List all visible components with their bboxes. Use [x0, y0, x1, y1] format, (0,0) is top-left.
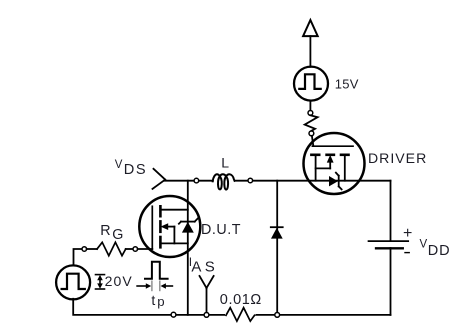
body arrow (points left to channel) [161, 223, 169, 230]
diode D1 (points up) [271, 227, 283, 238]
svg-text:V: V [115, 159, 123, 171]
wire node to DUT gate [138, 248, 153, 250]
node (terminal) above gate zigzag [308, 111, 313, 116]
channel segment (body) [327, 154, 334, 157]
battery VDD [369, 241, 409, 248]
wire 15V source to node [309, 101, 311, 111]
body-source connector [173, 227, 175, 244]
drain lead [160, 209, 187, 211]
node (terminal) right of RG [133, 247, 138, 252]
gate bar [312, 145, 353, 147]
channel segment (source side) [159, 237, 162, 247]
wire bottom rail [73, 299, 390, 315]
gate bar [151, 206, 153, 249]
node (terminal) IAS probe [204, 313, 209, 318]
node (terminal) left of RG [82, 247, 87, 252]
source lead [160, 242, 187, 244]
body diode (on wire, points up) [182, 222, 194, 233]
drain lead [344, 155, 346, 181]
svg-text:DS: DS [124, 162, 147, 178]
resistor RG [97, 242, 126, 255]
svg-text:AS: AS [191, 259, 218, 276]
svg-text:0.01Ω: 0.01Ω [220, 292, 262, 308]
channel segment (drain side) [159, 206, 162, 216]
wire 20V source top to RG [74, 249, 83, 266]
probe arrow VDS [153, 169, 166, 189]
svg-text:V: V [420, 239, 428, 251]
svg-text:R: R [100, 223, 110, 239]
body-source connector [316, 167, 331, 169]
node (terminal) diode branch [275, 313, 280, 318]
node (terminal) left of inductor [194, 178, 199, 183]
svg-text:L: L [221, 154, 229, 170]
current probe arrow IAS (Y) [200, 276, 214, 312]
svg-text:t: t [151, 292, 155, 308]
label - [405, 252, 409, 254]
svg-text:p: p [157, 294, 164, 309]
wire node to driver gate bar [312, 136, 313, 146]
channel segment (source side) [311, 154, 319, 157]
svg-text:20V: 20V [105, 273, 133, 289]
inductor L [213, 174, 235, 189]
svg-text:15V: 15V [335, 77, 359, 92]
svg-text:DRIVER: DRIVER [368, 150, 427, 166]
diode D1 branch wire [276, 181, 278, 315]
svg-text:DD: DD [428, 243, 451, 259]
mosfet U2 DRIVER [304, 133, 365, 194]
svg-text:G: G [112, 227, 123, 243]
zigzag gate lead [305, 115, 318, 130]
svg-text:+: + [403, 225, 412, 242]
resistor 0.01 ohm (shunt) [225, 307, 256, 324]
channel segment (body) [159, 221, 162, 231]
arrow to drain sense (open triangle, top) [303, 20, 318, 67]
svg-text:D.U.T: D.U.T [201, 222, 241, 238]
main drain bus wire (horizontal) [165, 180, 213, 182]
pulse source 20V [56, 265, 90, 299]
mosfet Q1 D.U.T [139, 196, 200, 257]
body arrow (points up to channel) [327, 155, 334, 163]
source lead [315, 155, 317, 181]
channel segment (drain side) [341, 154, 349, 157]
node (terminal) bottom left [171, 312, 176, 317]
wire resistor to node [126, 248, 133, 250]
wire node to resistor RG [87, 248, 97, 250]
node (terminal) at driver gate [309, 131, 314, 136]
main vertical wire (DUT drain-source bus) [187, 181, 189, 315]
amplitude double arrow (20V) [96, 275, 105, 289]
pulse width symbol tp [137, 262, 172, 291]
node (terminal) right of inductor [248, 178, 253, 183]
body diode (on wire, points right) [329, 176, 338, 186]
wire VDD branch [390, 181, 392, 241]
pulse source 15V [294, 67, 328, 101]
